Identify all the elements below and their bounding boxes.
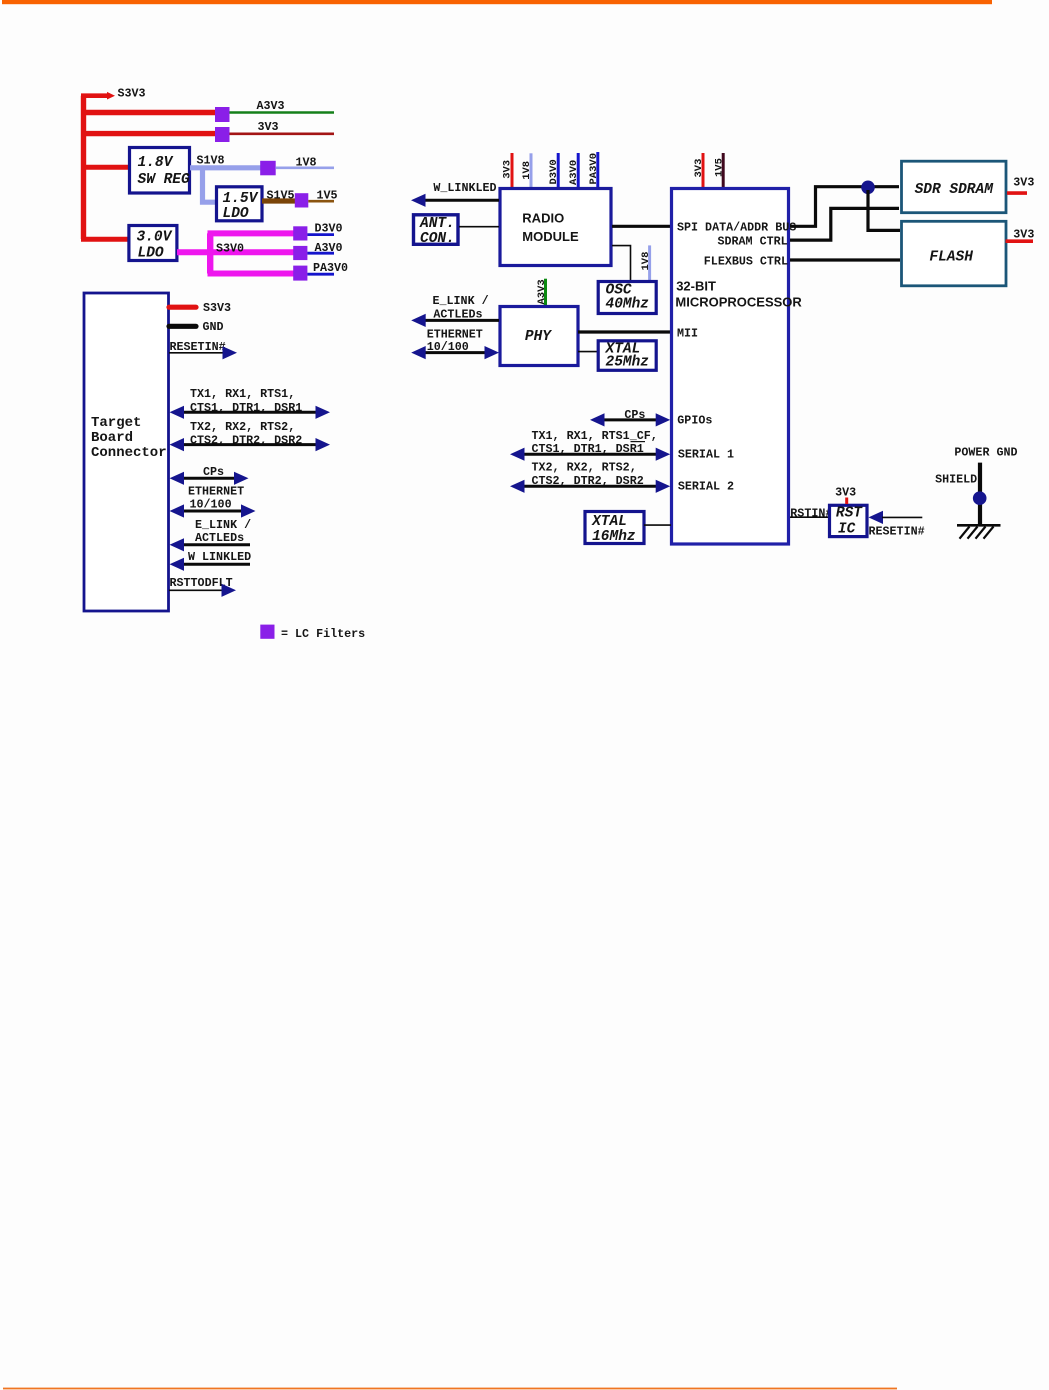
svg-text:D3V0: D3V0 xyxy=(548,159,560,184)
svg-text:E_LINK /: E_LINK / xyxy=(433,294,489,308)
phy U3 PHY xyxy=(500,307,578,366)
processor U1 32-BIT MICROPROCESSOR xyxy=(672,189,803,545)
node S3V3 power rail xyxy=(81,87,146,240)
LC filter F4 xyxy=(295,193,309,207)
wire bus junction to FLASH xyxy=(868,190,900,230)
svg-text:10/100: 10/100 xyxy=(190,498,232,512)
net W_LINKLED out of radio xyxy=(411,181,499,207)
svg-text:PA3V0: PA3V0 xyxy=(313,261,348,275)
svg-text:FLASH: FLASH xyxy=(929,250,973,266)
regulator 3.0V LDO xyxy=(129,226,177,262)
crystal XTAL 25Mhz xyxy=(598,341,656,371)
net 3V3 into RST IC xyxy=(835,485,856,504)
footer rule xyxy=(3,1388,897,1390)
regulator 1.8V SW REG xyxy=(130,148,191,194)
memory U5 FLASH xyxy=(902,221,1007,285)
net 3V3 xyxy=(230,120,335,134)
svg-text:1.5V: 1.5V xyxy=(223,191,259,207)
svg-text:ACTLEDs: ACTLEDs xyxy=(195,531,244,545)
svg-text:TX2, RX2, RTS2,: TX2, RX2, RTS2, xyxy=(532,461,637,475)
LC filter F3 xyxy=(260,161,276,176)
svg-text:1V8: 1V8 xyxy=(640,252,652,271)
wire radio to OSC xyxy=(612,246,631,281)
bus ETHERNET 10/100 (PHY side) xyxy=(411,327,499,359)
bus SERIAL1 (connector side) xyxy=(170,387,331,419)
node POWER GND SHIELD xyxy=(935,446,1017,525)
bus CPs (micro side) xyxy=(590,408,670,426)
net 3V3 into radio (vertical) xyxy=(502,153,514,187)
wire MII PHY to micro xyxy=(578,330,670,333)
svg-text:16Mhz: 16Mhz xyxy=(592,529,636,545)
connector J1 Target Board Connector xyxy=(84,293,169,611)
svg-text:1V8: 1V8 xyxy=(521,161,533,180)
net RSTTODFLT out xyxy=(169,576,236,597)
net E_LINK/ACTLEDs in xyxy=(170,518,252,552)
ground chassis symbol xyxy=(957,525,1001,538)
svg-text:PHY: PHY xyxy=(525,329,552,345)
net A3V0 into radio (vertical) xyxy=(568,153,580,187)
svg-text:FLEXBUS CTRL: FLEXBUS CTRL xyxy=(704,255,788,269)
svg-text:XTAL: XTAL xyxy=(591,514,627,530)
svg-text:S3V0: S3V0 xyxy=(216,242,244,256)
net 1V5 xyxy=(308,189,337,203)
svg-text:LDO: LDO xyxy=(138,246,164,262)
net A3V3 xyxy=(230,99,335,113)
oscillator OSC 40Mhz xyxy=(598,282,656,314)
wire antenna to radio xyxy=(459,226,499,228)
bus CPs (connector side) xyxy=(170,465,249,485)
wire bus micro to SDRAM xyxy=(790,187,899,227)
svg-text:SERIAL 2: SERIAL 2 xyxy=(678,480,734,494)
svg-text:TX1, RX1, RTS1,: TX1, RX1, RTS1, xyxy=(190,387,295,401)
legend LC Filters xyxy=(260,625,365,641)
svg-text:A3V3: A3V3 xyxy=(536,279,548,304)
svg-text:S3V3: S3V3 xyxy=(203,301,231,315)
LC filter F7 xyxy=(293,266,307,281)
svg-text:1.8V: 1.8V xyxy=(138,155,174,171)
LC filter F2 xyxy=(215,127,230,142)
LC filter F1 xyxy=(215,107,230,122)
svg-text:SDR SDRAM: SDR SDRAM xyxy=(915,182,995,198)
svg-text:3.0V: 3.0V xyxy=(137,230,173,246)
net 1V8 into OSC xyxy=(640,245,652,281)
svg-text:GPIOs: GPIOs xyxy=(677,414,712,428)
svg-text:IC: IC xyxy=(838,522,856,538)
svg-text:3V3: 3V3 xyxy=(258,120,279,134)
svg-text:ANT.: ANT. xyxy=(419,216,455,232)
wire rail to A3V3 LC filter xyxy=(84,110,216,115)
svg-text:SPI DATA/ADDR BUS: SPI DATA/ADDR BUS xyxy=(677,221,796,235)
svg-text:RST: RST xyxy=(836,505,863,521)
svg-text:1V5: 1V5 xyxy=(713,158,725,177)
module U2 RADIO MODULE xyxy=(500,189,611,266)
bus SERIAL1 (micro side) xyxy=(510,429,670,461)
header rule xyxy=(2,0,992,4)
bus ETHERNET 10/100 (connector side) xyxy=(170,484,256,517)
svg-text:Connector: Connector xyxy=(91,445,167,461)
net PA3V0 into radio (vertical) xyxy=(588,152,600,187)
net 1V5 into micro (vertical) xyxy=(713,153,725,187)
memory U4 SDR SDRAM xyxy=(902,161,1007,213)
svg-text:SDRAM CTRL: SDRAM CTRL xyxy=(718,235,788,249)
svg-text:ETHERNET: ETHERNET xyxy=(188,484,244,498)
wire S1V8 branch to 1.5V LDO xyxy=(203,168,217,202)
pin S3V3 stub xyxy=(169,301,231,315)
svg-text:RESETIN#: RESETIN# xyxy=(170,340,226,354)
svg-text:40Mhz: 40Mhz xyxy=(606,297,650,313)
svg-text:SHIELD: SHIELD xyxy=(935,473,977,487)
svg-text:3V3: 3V3 xyxy=(693,159,705,178)
net S1V5 xyxy=(262,189,296,203)
connector ANT. CON. xyxy=(414,215,459,247)
svg-text:1V5: 1V5 xyxy=(317,189,338,203)
svg-text:SERIAL 1: SERIAL 1 xyxy=(678,448,734,462)
reset IC U6 RST IC xyxy=(830,505,868,537)
net A3V3 into PHY (vertical) xyxy=(536,279,548,305)
net RSTIN# micro to RST IC xyxy=(790,506,832,520)
svg-text:A3V0: A3V0 xyxy=(568,160,580,185)
svg-text:RESETIN#: RESETIN# xyxy=(869,524,925,538)
svg-text:32-BIT: 32-BIT xyxy=(676,279,716,294)
LC filter F6 xyxy=(293,246,307,260)
net PA3V0 xyxy=(307,261,348,275)
wire XTAL16 to micro xyxy=(644,524,671,526)
net S1V8 xyxy=(190,154,261,168)
svg-text:W_LINKLED: W_LINKLED xyxy=(433,181,496,195)
pin GND stub xyxy=(169,320,224,334)
svg-text:MICROPROCESSOR: MICROPROCESSOR xyxy=(675,295,802,310)
svg-text:GND: GND xyxy=(203,320,224,334)
svg-text:3V3: 3V3 xyxy=(502,160,514,179)
svg-text:D3V0: D3V0 xyxy=(315,221,343,235)
wire SDRAM CTRL xyxy=(790,208,899,240)
svg-text:POWER GND: POWER GND xyxy=(954,446,1017,460)
svg-text:S3V3: S3V3 xyxy=(118,87,146,101)
svg-text:TX1, RX1, RTS1_CF,: TX1, RX1, RTS1_CF, xyxy=(532,429,658,443)
regulator 1.5V LDO xyxy=(217,187,263,222)
wire rail to 3V3 LC filter xyxy=(84,131,216,136)
svg-text:SW REG: SW REG xyxy=(138,172,191,188)
svg-text:W LINKLED: W LINKLED xyxy=(188,550,251,564)
wire rail to 1.8V regulator xyxy=(84,165,130,170)
net 1V8 xyxy=(276,156,334,170)
bus SERIAL2 (micro side) xyxy=(510,461,670,493)
net W LINKLED in xyxy=(170,550,252,571)
net 1V8 into radio (vertical) xyxy=(521,153,533,187)
net D3V0 into radio (vertical) xyxy=(548,153,560,187)
junction bus node xyxy=(861,181,875,195)
crystal XTAL 16Mhz xyxy=(585,512,644,546)
wire rail elbow to 3.0V LDO xyxy=(84,237,129,240)
bus SERIAL2 (connector side) xyxy=(170,420,331,451)
svg-text:LDO: LDO xyxy=(223,206,249,222)
net 3V3 into micro (vertical) xyxy=(693,153,705,187)
svg-text:RADIO: RADIO xyxy=(522,211,564,226)
svg-text:CPs: CPs xyxy=(203,465,224,479)
wire PHY to XTAL25 xyxy=(578,351,597,353)
svg-text:E_LINK /: E_LINK / xyxy=(195,518,251,532)
svg-text:3V3: 3V3 xyxy=(1013,176,1034,190)
svg-text:1V8: 1V8 xyxy=(296,156,317,170)
pin 3V3 stub FLASH xyxy=(1006,227,1035,241)
net RESETIN# out xyxy=(169,340,237,359)
net S3V0 tree xyxy=(177,233,294,273)
svg-text:MII: MII xyxy=(677,327,698,341)
svg-text:25Mhz: 25Mhz xyxy=(606,355,650,371)
svg-text:3V3: 3V3 xyxy=(835,485,856,499)
svg-text:RSTIN#: RSTIN# xyxy=(790,506,832,520)
svg-text:A3V3: A3V3 xyxy=(257,99,285,113)
svg-text:3V3: 3V3 xyxy=(1013,227,1034,241)
svg-text:Board: Board xyxy=(91,430,133,446)
net A3V0 xyxy=(307,241,342,255)
svg-text:= LC Filters: = LC Filters xyxy=(281,627,365,641)
svg-text:TX2, RX2, RTS2,: TX2, RX2, RTS2, xyxy=(190,420,295,434)
net E_LINK/ACTLEDs out of PHY xyxy=(411,294,499,327)
svg-text:A3V0: A3V0 xyxy=(315,241,343,255)
net RESETIN# into RST IC xyxy=(869,511,925,539)
svg-text:PA3V0: PA3V0 xyxy=(588,153,600,185)
net D3V0 xyxy=(307,221,342,235)
svg-text:CON.: CON. xyxy=(420,231,455,247)
wire FLEXBUS CTRL to FLASH xyxy=(790,258,900,261)
pin 3V3 stub SDRAM xyxy=(1007,176,1034,194)
LC filter F5 xyxy=(293,226,307,240)
svg-text:MODULE: MODULE xyxy=(522,229,579,244)
svg-text:Target: Target xyxy=(91,415,141,431)
wire SPI radio to micro xyxy=(612,225,670,228)
